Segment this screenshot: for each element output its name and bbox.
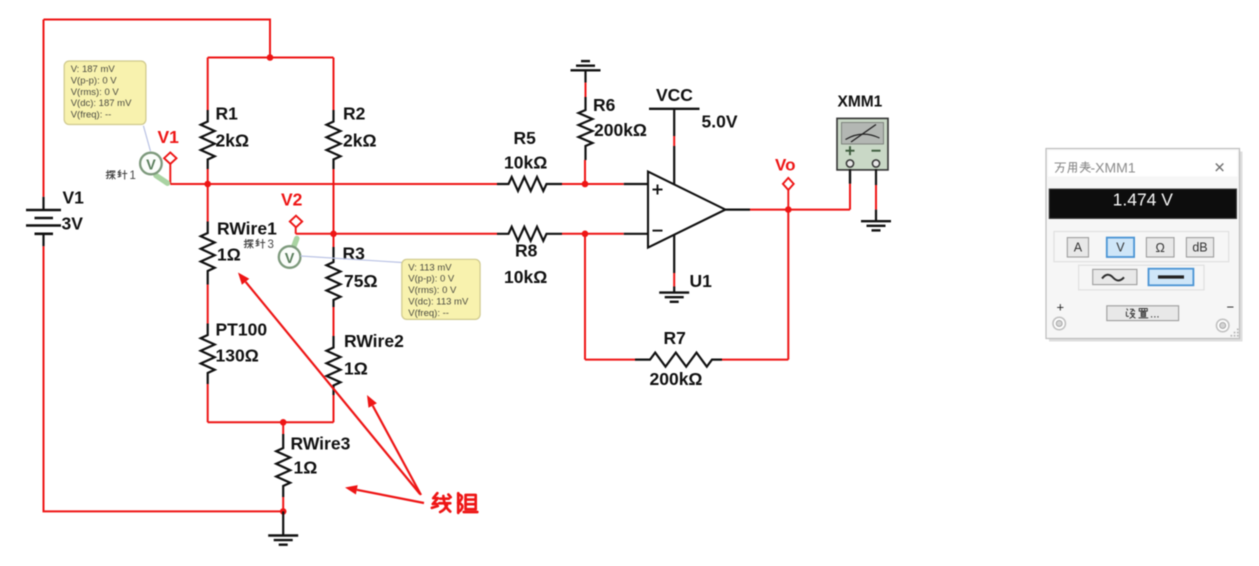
label V1 battery refdes xyxy=(63,188,85,208)
svg-text:1Ω: 1Ω xyxy=(217,245,241,265)
svg-text:V2: V2 xyxy=(281,190,303,210)
svg-text:PT100: PT100 xyxy=(216,320,268,340)
wire R7 to output riser xyxy=(722,359,788,361)
label R5 refdes xyxy=(514,128,537,148)
svg-text:✕: ✕ xyxy=(1214,161,1226,177)
svg-text:V(dc): 187 mV: V(dc): 187 mV xyxy=(71,98,132,109)
op-amp U1 body xyxy=(648,172,725,248)
resistor R5 xyxy=(497,177,562,191)
svg-text:R8: R8 xyxy=(515,241,538,261)
wire PT100 bottom to bridge bottom xyxy=(207,384,209,422)
multimeter XMM1 icon xyxy=(837,118,888,169)
wire pin op-amp output xyxy=(725,209,750,211)
junction bridge bottom at RWire3 xyxy=(280,419,287,426)
connector probe3 to readout xyxy=(301,256,403,263)
wire pin U1 VEE to ground xyxy=(673,235,675,293)
label RWire3 value xyxy=(294,458,318,478)
svg-text:Vo: Vo xyxy=(775,156,795,175)
svg-text:130Ω: 130Ω xyxy=(216,346,259,366)
label VCC xyxy=(656,85,693,105)
annotation text wire-resistance xyxy=(432,493,477,513)
svg-text:200kΩ: 200kΩ xyxy=(650,369,703,389)
label R2 value xyxy=(343,131,377,151)
annotation arrow to RWire1 xyxy=(238,273,420,495)
probe V2 diamond xyxy=(290,216,302,228)
resistor R7 xyxy=(635,353,722,367)
wire RWire3 to ground node xyxy=(282,497,284,511)
wire R6 to op-amp + node xyxy=(584,160,586,184)
probe V1 stem xyxy=(169,164,171,184)
svg-text:V: V xyxy=(146,158,156,174)
label R7 refdes xyxy=(664,328,686,348)
probe readout box V1 (187 mV) xyxy=(64,61,146,125)
label R6 refdes xyxy=(593,95,616,115)
svg-text:RWire3: RWire3 xyxy=(291,434,351,454)
svg-text:−: − xyxy=(1227,300,1235,315)
wire output net to XMM1 xyxy=(750,209,850,211)
probe V1 diamond xyxy=(164,152,176,164)
resistor RWire3 xyxy=(276,434,290,497)
resistor RWire2 xyxy=(327,336,341,395)
svg-text:10kΩ: 10kΩ xyxy=(504,267,547,287)
svg-text:3: 3 xyxy=(268,239,274,251)
resistor PT100 xyxy=(201,324,215,385)
resistor R8 xyxy=(497,227,562,241)
svg-text:V: 113 mV: V: 113 mV xyxy=(408,262,452,273)
label RWire1 refdes xyxy=(217,219,277,239)
annotation arrow to RWire3 xyxy=(345,485,424,503)
svg-text:75Ω: 75Ω xyxy=(344,271,378,291)
ground under U1 xyxy=(659,293,689,302)
label R3 value xyxy=(344,271,378,291)
wire battery bottom to ground rail xyxy=(44,246,284,511)
wire pin U1 VCC xyxy=(673,109,675,185)
svg-text:V(freq): --: V(freq): -- xyxy=(71,110,112,121)
resistor RWire1 xyxy=(201,222,215,285)
label probe 3 name xyxy=(244,239,274,251)
wire node V1 to RWire1 xyxy=(207,184,209,222)
battery V1 xyxy=(26,197,61,247)
svg-text:R7: R7 xyxy=(664,328,686,348)
wire battery top xyxy=(43,20,45,197)
svg-text:R1: R1 xyxy=(216,104,239,124)
wire bridge bottom to RWire3 xyxy=(282,422,284,434)
svg-text:...: ... xyxy=(1150,308,1160,320)
power VCC rail bar xyxy=(649,108,700,110)
svg-text:V(rms): 0 V: V(rms): 0 V xyxy=(71,87,120,98)
svg-text:1: 1 xyxy=(130,170,136,182)
svg-text:V1: V1 xyxy=(158,127,180,147)
label PT100 refdes xyxy=(216,320,268,340)
svg-text:V1: V1 xyxy=(63,188,85,208)
junction bridge top feed xyxy=(267,54,274,61)
connector probe1 to readout xyxy=(143,126,150,152)
label RWire2 refdes xyxy=(344,331,404,351)
svg-text:RWire1: RWire1 xyxy=(217,219,277,239)
ground under RWire3 xyxy=(268,536,298,545)
junction op-amp - node with R7 feedback xyxy=(582,231,589,238)
probe Vo diamond xyxy=(783,178,794,190)
wire pin op-amp + input xyxy=(624,183,648,185)
svg-text:+: + xyxy=(1057,300,1065,315)
wire XMM1 - terminal xyxy=(875,169,877,221)
junction node V1 at R1/RWire1 xyxy=(204,181,211,188)
probe V2 stem xyxy=(295,227,297,234)
svg-text:V(p-p): 0 V: V(p-p): 0 V xyxy=(408,274,455,285)
svg-text:RWire2: RWire2 xyxy=(344,331,404,351)
wire R5 to op-amp + node xyxy=(562,183,624,185)
resistor R1 xyxy=(201,110,215,169)
label R2 refdes xyxy=(343,104,366,124)
label node Vo xyxy=(775,156,795,175)
svg-text:V(p-p): 0 V: V(p-p): 0 V xyxy=(71,75,118,86)
junction ground node at battery return xyxy=(280,508,287,515)
svg-text:2kΩ: 2kΩ xyxy=(216,131,250,151)
svg-text:10kΩ: 10kΩ xyxy=(504,153,547,173)
wire node V2 to R3 xyxy=(333,234,335,247)
svg-text:V: V xyxy=(1116,241,1125,255)
wire R8 to op-amp - node xyxy=(562,233,624,235)
wire XMM1 + terminal xyxy=(849,169,851,184)
wire pin op-amp - input xyxy=(624,233,648,235)
svg-text:VCC: VCC xyxy=(656,85,693,105)
wire bridge top between R1 and R2 branches xyxy=(208,57,334,59)
wire bridge bottom xyxy=(208,421,334,423)
wire R1 bottom to node V1 xyxy=(207,169,209,184)
junction op-amp + node with R6 xyxy=(582,181,589,188)
svg-text:-XMM1: -XMM1 xyxy=(1091,159,1136,175)
wire output riser down xyxy=(787,210,789,360)
probe 1 tail xyxy=(156,176,168,184)
svg-text:dB: dB xyxy=(1192,241,1207,255)
probe Vo stem xyxy=(787,190,789,210)
svg-text:200kΩ: 200kΩ xyxy=(594,120,647,140)
svg-text:3V: 3V xyxy=(62,214,84,234)
label R7 value xyxy=(650,369,703,389)
svg-text:V(rms): 0 V: V(rms): 0 V xyxy=(408,285,457,296)
junction node V2 at R2/R3 xyxy=(330,231,337,238)
svg-text:V: 187 mV: V: 187 mV xyxy=(71,64,116,75)
label R8 refdes xyxy=(515,241,538,261)
wire RWire1 to PT100 xyxy=(207,285,209,324)
wire node V1 to R5 xyxy=(170,183,497,185)
svg-text:1Ω: 1Ω xyxy=(344,359,368,379)
wire R2 top lead net xyxy=(333,58,335,111)
svg-text:V(freq): --: V(freq): -- xyxy=(408,308,449,319)
label V1 battery value xyxy=(62,214,84,234)
svg-text:XMM1: XMM1 xyxy=(838,94,883,111)
wire feedback to R7 xyxy=(585,359,635,361)
label R5 value xyxy=(504,153,547,173)
label R8 value xyxy=(504,267,547,287)
label R1 refdes xyxy=(216,104,239,124)
label RWire3 refdes xyxy=(291,434,351,454)
label RWire2 value xyxy=(344,359,368,379)
label R6 value xyxy=(594,120,647,140)
multimeter XMM1 settings panel xyxy=(1046,149,1243,342)
probe 1 circle xyxy=(140,153,162,175)
wire ground to R6 xyxy=(585,83,587,97)
probe 3 circle xyxy=(279,246,301,268)
label VCC value 5.0V xyxy=(702,112,738,132)
svg-text:5.0V: 5.0V xyxy=(702,112,738,132)
svg-text:V: V xyxy=(285,251,295,267)
svg-text:A: A xyxy=(1074,241,1083,255)
wire top rail from V1 battery to bridge top xyxy=(44,20,271,58)
wire feedback drop from - node xyxy=(584,234,586,360)
probe V1 label xyxy=(158,127,180,147)
ground above R6 xyxy=(571,61,601,70)
svg-text:R6: R6 xyxy=(593,95,616,115)
label R3 refdes xyxy=(343,244,366,264)
label U1 refdes xyxy=(690,271,713,291)
label R1 value xyxy=(216,131,250,151)
svg-text:U1: U1 xyxy=(690,271,713,291)
wire R3 to RWire2 xyxy=(333,307,335,336)
svg-text:Ω: Ω xyxy=(1156,241,1165,255)
label probe 1 name xyxy=(106,170,136,182)
resistor R2 xyxy=(327,110,341,169)
wire R2 bottom to node V2 (crosses V1 net) xyxy=(333,169,335,234)
svg-text:1.474 V: 1.474 V xyxy=(1113,190,1174,210)
ground under XMM1 - xyxy=(861,221,891,230)
junction output node Vo xyxy=(785,206,792,213)
label XMM1 refdes xyxy=(838,94,883,111)
probe readout box V2 (113 mV) xyxy=(402,259,480,319)
resistor R6 xyxy=(579,97,593,160)
svg-text:R2: R2 xyxy=(343,104,366,124)
wire ground stub above R6 xyxy=(584,70,586,82)
wire ground stub xyxy=(282,511,284,535)
probe 3 tail xyxy=(293,239,297,249)
probe V2 label xyxy=(281,190,303,210)
wire RWire2 bottom to bridge bottom xyxy=(333,395,335,422)
svg-text:V(dc): 113 mV: V(dc): 113 mV xyxy=(408,297,469,308)
svg-text:R5: R5 xyxy=(514,128,537,148)
wire R1 top lead net xyxy=(207,58,209,111)
label PT100 value xyxy=(216,346,259,366)
wire output riser to XMM1 + xyxy=(849,169,851,210)
wire node V2 to R8 xyxy=(296,233,497,235)
svg-text:2kΩ: 2kΩ xyxy=(343,131,377,151)
annotation arrow to RWire2 xyxy=(367,395,421,495)
resistor R3 xyxy=(327,247,341,307)
label RWire1 value xyxy=(217,245,241,265)
svg-text:1Ω: 1Ω xyxy=(294,458,318,478)
